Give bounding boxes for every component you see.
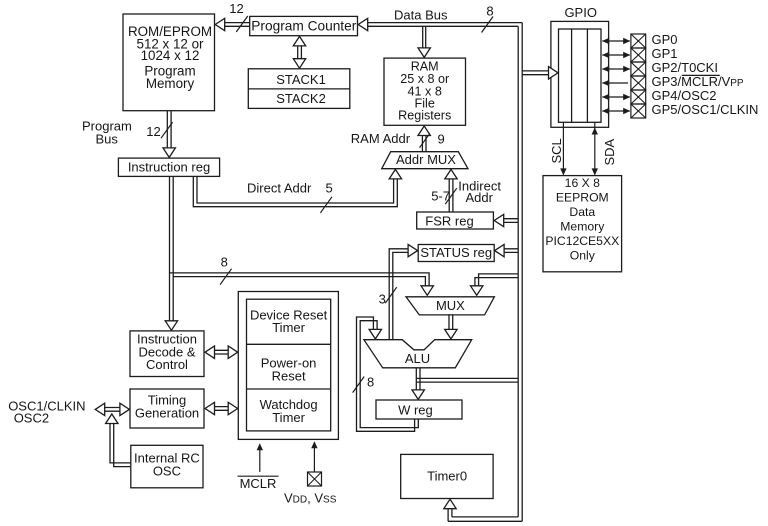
svg-text:Timer: Timer (272, 410, 305, 425)
svg-text:SDA: SDA (602, 138, 617, 165)
svg-text:GP4/OSC2: GP4/OSC2 (652, 88, 717, 103)
svg-text:Instruction reg: Instruction reg (128, 159, 210, 174)
svg-text:PIC12CE5XX: PIC12CE5XX (545, 234, 619, 248)
svg-text:FSR reg: FSR reg (425, 213, 473, 228)
svg-text:8: 8 (486, 4, 493, 19)
svg-text:GP1: GP1 (652, 46, 678, 61)
svg-text:Data: Data (569, 205, 595, 219)
svg-text:Control: Control (146, 357, 188, 372)
svg-text:STACK2: STACK2 (276, 91, 326, 106)
svg-text:MCLR: MCLR (240, 476, 277, 491)
svg-text:GP0: GP0 (652, 32, 678, 47)
svg-text:Only: Only (570, 249, 596, 263)
svg-text:Timer: Timer (272, 320, 305, 335)
svg-text:Registers: Registers (398, 109, 451, 123)
svg-text:12: 12 (229, 1, 243, 16)
svg-text:8: 8 (367, 374, 374, 389)
svg-text:Timer0: Timer0 (427, 468, 467, 483)
svg-text:Memory: Memory (560, 220, 605, 234)
svg-text:GP2/T0CKI: GP2/T0CKI (652, 60, 718, 75)
svg-text:Memory: Memory (146, 76, 195, 91)
svg-text:Direct Addr: Direct Addr (247, 180, 312, 195)
svg-text:Program Counter: Program Counter (251, 18, 356, 33)
svg-text:GP5/OSC1/CLKIN: GP5/OSC1/CLKIN (652, 102, 759, 117)
svg-text:MUX: MUX (436, 298, 465, 313)
svg-text:W reg: W reg (398, 403, 433, 418)
svg-text:Reset: Reset (272, 368, 306, 383)
svg-text:Generation: Generation (135, 406, 199, 421)
svg-text:STATUS reg: STATUS reg (420, 245, 492, 260)
svg-text:16 X 8: 16 X 8 (565, 176, 600, 190)
svg-text:5: 5 (326, 180, 333, 195)
svg-text:Addr MUX: Addr MUX (396, 152, 456, 167)
svg-text:Bus: Bus (96, 132, 119, 147)
svg-text:ALU: ALU (405, 351, 430, 366)
svg-text:3: 3 (379, 291, 386, 306)
svg-text:STACK1: STACK1 (276, 72, 326, 87)
svg-text:8: 8 (221, 254, 228, 269)
svg-text:RAM Addr: RAM Addr (351, 131, 411, 146)
svg-text:9: 9 (438, 131, 445, 146)
svg-text:EEPROM: EEPROM (556, 191, 609, 205)
svg-text:5-7: 5-7 (431, 189, 450, 204)
svg-text:OSC: OSC (153, 464, 181, 479)
svg-text:GPIO: GPIO (564, 5, 597, 20)
svg-text:Data Bus: Data Bus (394, 7, 448, 22)
svg-text:1024 x 12: 1024 x 12 (141, 48, 200, 63)
svg-text:12: 12 (146, 124, 160, 139)
svg-text:Addr: Addr (466, 190, 494, 205)
svg-text:OSC2: OSC2 (14, 410, 49, 425)
svg-text:SCL: SCL (549, 138, 564, 163)
svg-text:GP3/MCLR/VPP: GP3/MCLR/VPP (652, 74, 744, 89)
